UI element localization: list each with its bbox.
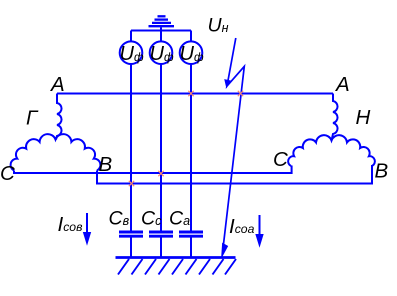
capacitor Cс plates: [149, 232, 173, 236]
winding Г arch coil B-C: [11, 134, 101, 170]
wire stub neutral to U2: [160, 31, 162, 43]
junction lightning / A bus: [238, 91, 243, 96]
capacitor Cа lower stub: [190, 238, 192, 258]
svg-text:H: H: [356, 106, 371, 129]
current arrow Iсов head: [84, 233, 91, 245]
lightning stroke wire: [223, 38, 245, 251]
wire C bus (left C to right C): [14, 166, 292, 174]
ground (grounded neutral) symbol: [149, 16, 175, 31]
wire phase C vertical: [160, 64, 162, 232]
junction phase B / B bus: [129, 181, 134, 186]
junction phase A / A bus: [188, 91, 193, 96]
current arrow Iсов: [86, 213, 88, 236]
svg-text:Iсоа: Iсоа: [229, 215, 255, 238]
current arrow Iсоа: [259, 215, 261, 238]
svg-text:B: B: [375, 160, 389, 183]
svg-text:Cа: Cа: [169, 208, 190, 230]
lightning mid arrowhead: [225, 80, 230, 87]
capacitor Cс lower stub: [160, 238, 162, 258]
capacitor Cа plates: [179, 232, 203, 236]
neutral bus wire: [131, 30, 191, 32]
lightning ground arrowhead: [222, 244, 228, 258]
capacitor Cв lower stub: [130, 238, 132, 258]
wire B bus (left B to right B): [97, 165, 372, 184]
svg-text:Cв: Cв: [109, 208, 130, 230]
junction phase C / C bus: [158, 171, 163, 176]
source Uф phase C (U2): [150, 41, 173, 64]
bus A wire (generator A to load A): [57, 93, 333, 95]
winding Н phase A vertical coil: [332, 94, 338, 141]
winding Г phase A vertical coil: [56, 94, 62, 140]
svg-text:C: C: [273, 148, 288, 171]
earth ground hatching: [118, 259, 236, 275]
source Uф phase A (U3): [180, 41, 203, 64]
svg-text:Г: Г: [26, 107, 39, 130]
wire stub neutral to U1: [130, 31, 132, 43]
svg-text:Iсов: Iсов: [58, 213, 83, 236]
winding Н arch coil B-C: [288, 135, 375, 166]
svg-text:Cс: Cс: [141, 208, 162, 230]
wire stub neutral to U3: [190, 31, 192, 43]
current arrow Iсоа head: [256, 235, 263, 247]
source Uф phase B (U1): [120, 41, 143, 64]
wire phase A vertical: [190, 64, 192, 232]
earth ground line: [116, 256, 236, 259]
svg-text:B: B: [99, 153, 113, 176]
capacitor Cв plates: [119, 232, 143, 236]
svg-text:A: A: [334, 73, 350, 96]
svg-text:C: C: [0, 162, 15, 185]
wire phase B vertical: [130, 64, 132, 232]
svg-text:A: A: [49, 73, 65, 96]
svg-text:Uн: Uн: [208, 15, 229, 37]
